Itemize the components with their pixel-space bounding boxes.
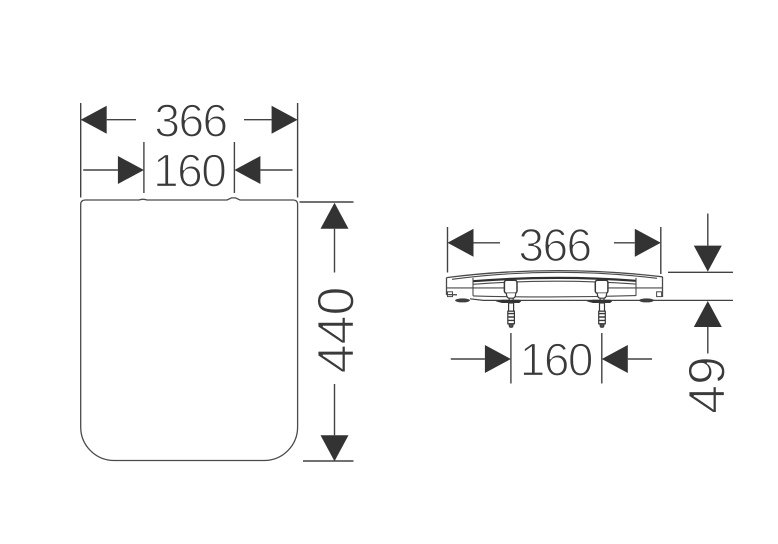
- seat side view top edge inner: [452, 272, 657, 279]
- svg-text:366: 366: [154, 94, 226, 146]
- dimension 160 (side view) extension line left: [510, 333, 512, 384]
- seat side view right end body line: [608, 287, 663, 289]
- dimension 366 (side view) arrow right: [635, 229, 661, 257]
- right hinge block: [595, 280, 608, 293]
- left bolt threaded nut: [508, 311, 515, 324]
- seat side view right step: [635, 278, 637, 296]
- seat side view hinge bar (dark): [473, 278, 636, 281]
- right bolt shaft: [600, 303, 605, 311]
- svg-text:160: 160: [153, 145, 225, 197]
- svg-text:366: 366: [518, 219, 590, 271]
- seat side view bottom inner line: [473, 296, 636, 297]
- right hinge ball dome: [597, 293, 606, 298]
- dimension 440 arrow up: [321, 203, 349, 229]
- left hinge ball dome: [506, 293, 515, 298]
- left bolt shaft: [509, 303, 514, 311]
- dimension 366 (side view) extension line right: [660, 227, 662, 274]
- dimension 49 extension line top: [668, 271, 733, 273]
- dimension 160 (side view) arrow left: [451, 358, 485, 360]
- seat side view right bumper foot: [639, 298, 654, 302]
- right hinge wing flange: [587, 300, 613, 303]
- seat side view top edge outer: [447, 271, 663, 278]
- dimension 160 (top view) extension line right: [233, 142, 235, 193]
- seat side view left end edge: [447, 278, 458, 295]
- seat side view right mount rect: [657, 292, 662, 297]
- seat side view left end body line: [447, 287, 505, 289]
- left hinge wing flange: [496, 300, 522, 303]
- seat side view left bumper foot: [455, 298, 470, 302]
- svg-text:49: 49: [679, 356, 737, 414]
- right bolt tip: [600, 324, 604, 328]
- seat side view left mount rect: [448, 292, 453, 297]
- seat side view right end edge: [662, 277, 664, 297]
- dimension 160 (top view) extension line left: [143, 142, 145, 193]
- dimension 366 (top view) arrow left: [81, 106, 107, 134]
- dimension 49 arrow up: [694, 301, 722, 327]
- dimension 440 extension line top: [300, 201, 354, 203]
- dimension 160 (top view) arrow right: [234, 156, 260, 184]
- left bolt tip: [509, 324, 513, 328]
- seat side view rod line between hinges: [473, 281, 636, 284]
- dimension 440 arrow down: [321, 435, 349, 461]
- dimension 366 (top view) arrow right: [272, 106, 298, 134]
- seat side view bottom plane line / 49 extension: [470, 299, 733, 301]
- left hinge neck: [509, 298, 513, 300]
- svg-text:160: 160: [520, 334, 592, 386]
- dimension 49 arrow down: [707, 214, 709, 246]
- right hinge neck: [600, 298, 604, 300]
- dimension 160 (side view) arrow right: [602, 345, 628, 373]
- dimension 160 (top view) arrow left: [83, 169, 118, 171]
- svg-text:440: 440: [308, 287, 366, 374]
- dimension 366 (side view) arrow left: [448, 229, 474, 257]
- dimension 366 (top view) extension line right: [297, 103, 299, 198]
- dimension 160 (side view) extension line right: [601, 333, 603, 384]
- dimension 366 (top view) extension line left: [80, 103, 82, 198]
- right bolt threaded nut: [599, 311, 606, 324]
- seat lid top view outline: [81, 198, 298, 461]
- seat side view left step: [472, 278, 474, 296]
- left hinge block: [504, 280, 517, 293]
- dimension 440 extension line bottom: [303, 460, 354, 462]
- dimension 366 (side view) extension line left: [447, 227, 449, 273]
